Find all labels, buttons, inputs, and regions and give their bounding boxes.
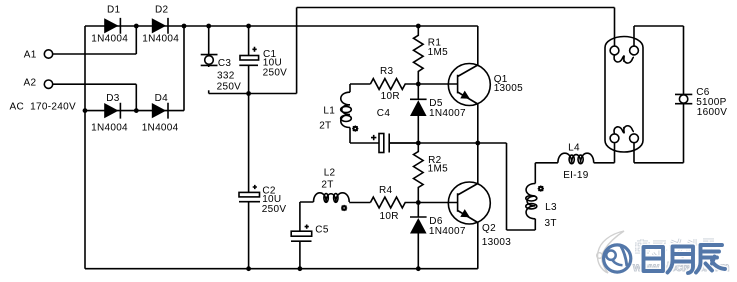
svg-text:10R: 10R bbox=[380, 211, 399, 222]
svg-text:3T: 3T bbox=[545, 218, 557, 229]
svg-text:D4: D4 bbox=[155, 93, 169, 104]
svg-text:13003: 13003 bbox=[482, 237, 511, 248]
svg-text:1N4004: 1N4004 bbox=[142, 122, 179, 133]
svg-text:250V: 250V bbox=[263, 68, 288, 79]
svg-text:1M5: 1M5 bbox=[428, 163, 448, 174]
svg-text:D1: D1 bbox=[107, 4, 121, 15]
svg-text:D3: D3 bbox=[106, 93, 120, 104]
svg-text:13005: 13005 bbox=[494, 83, 523, 94]
svg-text:1N4004: 1N4004 bbox=[142, 33, 179, 44]
svg-text:1N4004: 1N4004 bbox=[91, 122, 128, 133]
svg-text:L1: L1 bbox=[323, 106, 335, 117]
svg-text:A2: A2 bbox=[24, 78, 37, 89]
svg-text:2T: 2T bbox=[321, 179, 333, 190]
svg-text:EI-19: EI-19 bbox=[563, 170, 589, 181]
svg-text:R4: R4 bbox=[379, 185, 393, 196]
svg-text:250V: 250V bbox=[262, 204, 287, 215]
svg-text:250V: 250V bbox=[217, 82, 242, 93]
svg-text:AC 170-240V: AC 170-240V bbox=[10, 101, 76, 112]
svg-text:1N4007: 1N4007 bbox=[429, 226, 466, 237]
svg-text:D2: D2 bbox=[155, 4, 169, 15]
svg-text:10R: 10R bbox=[381, 91, 400, 102]
svg-text:332: 332 bbox=[217, 70, 235, 81]
svg-text:D6: D6 bbox=[429, 216, 443, 227]
svg-text:Q2: Q2 bbox=[482, 223, 496, 234]
svg-text:1M5: 1M5 bbox=[428, 47, 448, 58]
svg-text:L4: L4 bbox=[568, 142, 580, 153]
svg-text:A1: A1 bbox=[24, 49, 37, 60]
svg-text:2T: 2T bbox=[319, 120, 331, 131]
svg-text:1600V: 1600V bbox=[697, 107, 727, 118]
svg-text:R3: R3 bbox=[380, 66, 394, 77]
svg-text:C4: C4 bbox=[377, 108, 391, 119]
svg-text:1N4007: 1N4007 bbox=[429, 108, 466, 119]
svg-text:L2: L2 bbox=[324, 168, 336, 179]
svg-text:1N4004: 1N4004 bbox=[91, 33, 128, 44]
svg-text:C5: C5 bbox=[315, 224, 329, 235]
svg-text:L3: L3 bbox=[545, 202, 557, 213]
